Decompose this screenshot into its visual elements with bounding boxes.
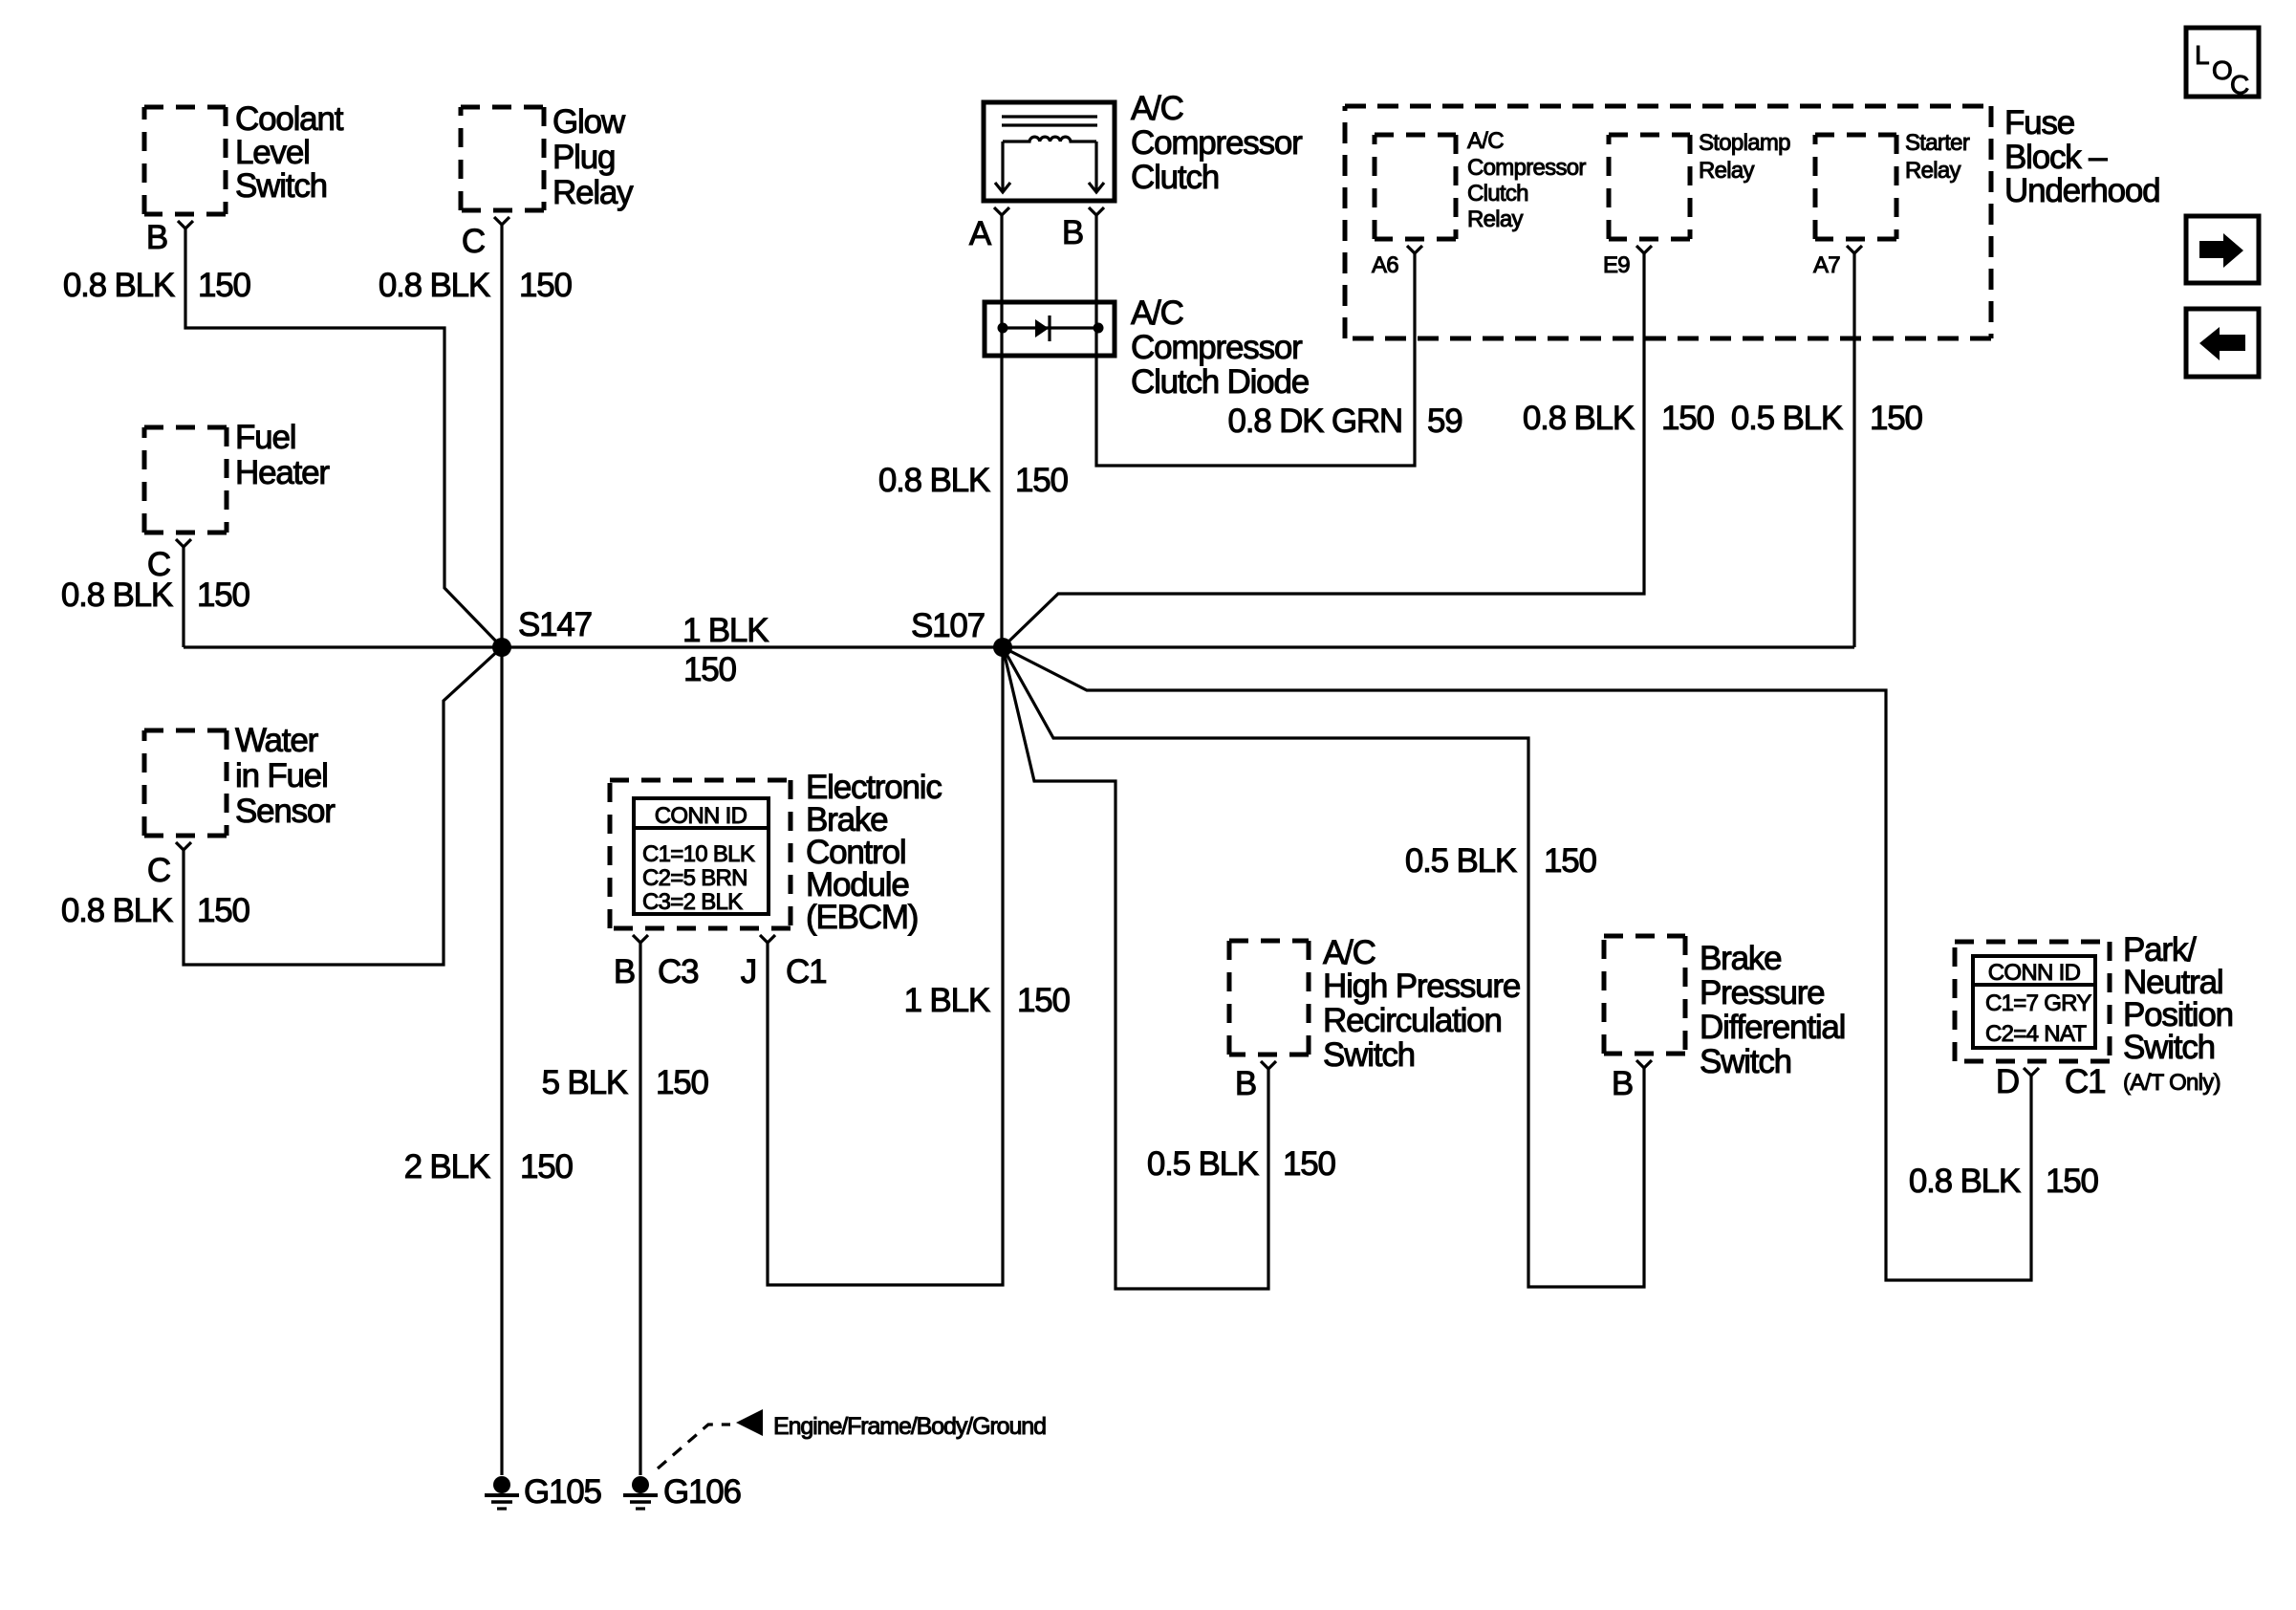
svg-text:Brake: Brake (1700, 940, 1781, 977)
svg-text:Compressor: Compressor (1131, 329, 1303, 366)
svg-text:High Pressure: High Pressure (1323, 968, 1520, 1005)
svg-text:S107: S107 (911, 607, 985, 644)
svg-text:150: 150 (1661, 400, 1715, 437)
svg-text:CONN ID: CONN ID (1988, 960, 2081, 986)
svg-text:CONN ID: CONN ID (655, 803, 747, 829)
svg-text:1 BLK: 1 BLK (904, 982, 990, 1019)
pin D C1 of Park/Neutral Position Switch (1996, 1063, 2105, 1100)
svg-text:0.8 BLK: 0.8 BLK (61, 892, 173, 929)
splice S147 (492, 606, 592, 657)
wire: Water in Fuel Sensor C to S147 (184, 647, 502, 965)
svg-text:Engine/Frame/Body/Ground: Engine/Frame/Body/Ground (773, 1413, 1046, 1440)
svg-text:1 BLK: 1 BLK (682, 612, 769, 649)
svg-text:S147: S147 (518, 606, 592, 643)
svg-text:Clutch: Clutch (1131, 159, 1219, 196)
svg-text:Water: Water (235, 722, 319, 759)
svg-text:Stoplamp: Stoplamp (1699, 130, 1790, 156)
svg-text:2 BLK: 2 BLK (404, 1148, 490, 1186)
wire label 5 BLK 150 (542, 1064, 709, 1101)
svg-text:Switch: Switch (1323, 1036, 1415, 1074)
svg-text:C3=2 BLK: C3=2 BLK (642, 889, 743, 915)
svg-text:Heater: Heater (235, 454, 330, 491)
svg-text:150: 150 (197, 577, 250, 614)
wire: fuse A7 down to ground bus (1852, 253, 1855, 647)
svg-text:(EBCM): (EBCM) (806, 899, 918, 936)
svg-text:5 BLK: 5 BLK (542, 1064, 628, 1101)
wire label 0.8 BLK 150 (coolant) (63, 267, 251, 304)
svg-text:Relay: Relay (1905, 158, 1961, 184)
CONN ID table of EBCM (634, 798, 769, 915)
svg-text:Relay: Relay (552, 174, 634, 211)
component: A/C Compressor Clutch (984, 90, 1303, 201)
svg-text:in Fuel: in Fuel (235, 757, 328, 794)
svg-text:Compressor: Compressor (1131, 124, 1303, 162)
CONN ID table of Park/Neutral Position Switch (1973, 956, 2095, 1048)
connector: Coolant Level Switch (144, 100, 344, 214)
svg-text:Recirculation: Recirculation (1323, 1002, 1502, 1039)
relay: Starter Relay (1815, 130, 1970, 239)
svg-text:C1=7 GRY: C1=7 GRY (1985, 990, 2091, 1016)
svg-text:C: C (2230, 70, 2249, 99)
wire: Glow Plug Relay C through S147 to G105 (500, 225, 503, 1475)
svg-text:O: O (2212, 55, 2232, 85)
coil of A/C Compressor Clutch (1003, 137, 1096, 141)
switch: A/C High Pressure Recirculation Switch (1229, 934, 1520, 1074)
pin B of A/C High Pressure Recirculation Switch (1235, 1061, 1276, 1102)
wire label 0.8 BLK 150 (water in fuel) (61, 892, 250, 929)
switch: Park/Neutral Position Switch (1955, 931, 2233, 1096)
wire: fuse E9 to S107 (1003, 253, 1644, 647)
pin B of Brake Pressure Differential Switch (1612, 1060, 1652, 1102)
diode symbol (1035, 319, 1049, 337)
wire label 0.8 BLK 150 (fuel heater) (61, 577, 250, 614)
svg-text:150: 150 (198, 267, 251, 304)
symbol: arrow right box (2186, 216, 2259, 283)
pin B of A/C Compressor Clutch (1062, 207, 1104, 251)
svg-text:Pressure: Pressure (1700, 974, 1824, 1012)
wire: S107 to Park/Neutral Position Switch D (1003, 647, 2031, 1280)
wire label 0.5 BLK 150 (recirc) (1147, 1145, 1336, 1183)
svg-text:0.5 BLK: 0.5 BLK (1731, 400, 1843, 437)
svg-text:150: 150 (683, 651, 737, 688)
relay: Stoplamp Relay (1609, 130, 1790, 239)
svg-text:A: A (969, 215, 992, 252)
svg-text:G106: G106 (663, 1473, 741, 1511)
svg-text:J: J (741, 953, 756, 990)
pin C of Water in Fuel Sensor (147, 842, 191, 889)
svg-text:C1=10 BLK: C1=10 BLK (642, 841, 755, 867)
svg-text:L: L (2195, 40, 2209, 70)
switch: Brake Pressure Differential Switch (1604, 936, 1845, 1080)
svg-text:C3: C3 (658, 953, 698, 990)
svg-text:E9: E9 (1603, 252, 1630, 278)
svg-text:A/C: A/C (1131, 90, 1183, 127)
svg-text:150: 150 (1015, 462, 1069, 499)
svg-text:0.8 BLK: 0.8 BLK (1909, 1163, 2021, 1200)
svg-text:C2=5 BRN: C2=5 BRN (642, 865, 747, 891)
wire label 0.8 BLK 150 (E9) (1523, 400, 1715, 437)
svg-text:Switch: Switch (2123, 1029, 2215, 1066)
connector: Fuel Heater (144, 419, 330, 533)
svg-text:Starter: Starter (1905, 130, 1970, 156)
svg-text:Clutch: Clutch (1467, 181, 1528, 207)
wire: Fuel Heater C to S147 (182, 547, 184, 647)
svg-text:150: 150 (1544, 842, 1597, 880)
wire: S107 to Recirculation Switch B (1003, 647, 1268, 1289)
pin B of Coolant Level Switch (146, 219, 193, 256)
svg-text:Sensor: Sensor (235, 793, 336, 830)
symbol: LOC box (2186, 28, 2259, 99)
wire: clutch B through diode to fuse A6 (1096, 215, 1415, 466)
svg-text:Block –: Block – (2004, 139, 2108, 176)
svg-text:G105: G105 (524, 1473, 601, 1511)
svg-text:B: B (1235, 1065, 1256, 1102)
svg-text:0.8 BLK: 0.8 BLK (379, 267, 490, 304)
svg-text:B: B (146, 219, 167, 256)
svg-text:A/C: A/C (1131, 294, 1183, 332)
svg-text:Compressor: Compressor (1467, 155, 1586, 181)
svg-text:150: 150 (197, 892, 250, 929)
pin A of A/C Compressor Clutch (969, 207, 1009, 252)
svg-text:D: D (1996, 1063, 2019, 1100)
svg-text:0.5 BLK: 0.5 BLK (1147, 1145, 1259, 1183)
svg-text:0.5 BLK: 0.5 BLK (1405, 842, 1517, 880)
connector: Water in Fuel Sensor (144, 722, 336, 836)
svg-text:C: C (147, 852, 170, 889)
svg-text:C1: C1 (786, 953, 826, 990)
wire: S107 to Brake Pressure Differential Switch B (1003, 647, 1644, 1287)
wire: ground bus S147 to S107 to A7 (184, 645, 1854, 648)
svg-text:0.8 BLK: 0.8 BLK (878, 462, 990, 499)
svg-text:150: 150 (1870, 400, 1923, 437)
svg-text:0.8 BLK: 0.8 BLK (61, 577, 173, 614)
svg-text:150: 150 (1283, 1145, 1336, 1183)
svg-text:(A/T Only): (A/T Only) (2123, 1070, 2220, 1096)
relay: A/C Compressor Clutch Relay (1375, 128, 1586, 239)
svg-text:Switch: Switch (1700, 1043, 1791, 1080)
svg-text:C: C (462, 223, 485, 260)
wire label 0.8 BLK 150 (clutch A) (878, 462, 1069, 499)
symbol: arrow left box (2186, 309, 2259, 377)
svg-text:Underhood: Underhood (2004, 172, 2159, 209)
svg-text:150: 150 (2046, 1163, 2099, 1200)
svg-text:150: 150 (519, 267, 573, 304)
svg-text:B: B (1062, 214, 1083, 251)
pin C of Fuel Heater (147, 539, 191, 583)
module: Electronic Brake Control Module (EBCM) (610, 769, 942, 936)
svg-text:Fuse: Fuse (2004, 104, 2074, 141)
wire: EBCM B/C3 to G106 (639, 943, 641, 1475)
svg-text:C2=4 NAT: C2=4 NAT (1985, 1021, 2087, 1047)
svg-text:150: 150 (520, 1148, 574, 1186)
ground G105 (485, 1473, 601, 1511)
wire label 1 BLK 150 (bus) (682, 612, 769, 688)
ground G106 (623, 1473, 741, 1511)
svg-text:150: 150 (1017, 982, 1071, 1019)
wire label 2 BLK 150 (to G105) (404, 1148, 574, 1186)
svg-text:0.8 DK GRN: 0.8 DK GRN (1228, 402, 1403, 440)
pin E9 of fuse block (1603, 246, 1652, 278)
component: Fuse Block - Underhood (1345, 104, 2159, 338)
svg-text:Fuel: Fuel (235, 419, 295, 456)
pin J C1 of EBCM (741, 935, 827, 990)
svg-text:150: 150 (656, 1064, 709, 1101)
splice S107 (911, 607, 1012, 657)
wire: Coolant Level Switch B to S147 (185, 228, 502, 647)
component: A/C Compressor Clutch Diode (985, 294, 1309, 401)
svg-text:A/C: A/C (1323, 934, 1375, 971)
svg-text:Glow: Glow (552, 103, 626, 141)
pin C of Glow Plug Relay (462, 217, 509, 260)
svg-text:B: B (614, 953, 635, 990)
svg-text:Relay: Relay (1699, 158, 1755, 184)
wire label 1 BLK 150 (EBCM J) (904, 982, 1071, 1019)
wire label 0.5 BLK 150 (A7) (1731, 400, 1923, 437)
svg-text:Relay: Relay (1467, 207, 1524, 232)
svg-text:Switch: Switch (235, 167, 327, 205)
svg-text:0.8 BLK: 0.8 BLK (63, 267, 175, 304)
svg-text:A7: A7 (1813, 252, 1840, 278)
wire label 0.8 BLK 150 (glow) (379, 267, 573, 304)
svg-text:A/C: A/C (1467, 128, 1504, 154)
pin B C3 of EBCM (614, 935, 699, 990)
pin A7 of fuse block (1813, 246, 1862, 278)
wire: clutch A to S107 (1000, 215, 1003, 647)
wire label 0.5 BLK 150 (brake) (1405, 842, 1597, 880)
svg-text:Plug: Plug (552, 139, 615, 176)
wire label 0.8 BLK 150 (park/neutral) (1909, 1163, 2099, 1200)
svg-text:Coolant: Coolant (235, 100, 344, 138)
wire: EBCM J/C1 to S107 (768, 647, 1003, 1285)
svg-text:Clutch Diode: Clutch Diode (1131, 363, 1309, 401)
svg-text:C1: C1 (2065, 1063, 2105, 1100)
svg-text:0.8 BLK: 0.8 BLK (1523, 400, 1635, 437)
svg-text:Differential: Differential (1700, 1009, 1845, 1046)
svg-text:B: B (1612, 1065, 1633, 1102)
wire label 0.8 DK GRN 59 (1228, 402, 1462, 440)
connector: Glow Plug Relay (461, 103, 634, 211)
callout: Engine/Frame/Body/Ground (658, 1409, 1046, 1469)
pin A6 of fuse block (1372, 246, 1422, 278)
svg-text:A6: A6 (1372, 252, 1398, 278)
svg-text:Level: Level (235, 134, 310, 171)
svg-text:59: 59 (1427, 402, 1462, 440)
